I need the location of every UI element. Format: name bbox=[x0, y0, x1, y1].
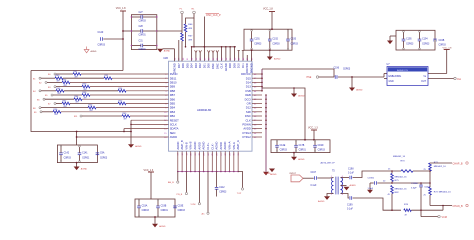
svg-text:VIN-A: VIN-A bbox=[232, 142, 236, 150]
svg-text:C0R03: C0R03 bbox=[219, 191, 227, 193]
capacitor C195 bbox=[402, 38, 406, 40]
svg-text:DB9: DB9 bbox=[170, 85, 176, 89]
net connector VCM output bbox=[421, 216, 438, 218]
svg-text:C0R03: C0R03 bbox=[318, 149, 326, 151]
svg-text:GND: GND bbox=[389, 81, 394, 83]
wire R71-R72 column bbox=[429, 171, 431, 187]
cap stack loop wires bbox=[131, 15, 156, 50]
svg-text:VCC_1.8: VCC_1.8 bbox=[116, 7, 126, 10]
svg-text:HSE: HSE bbox=[307, 77, 312, 79]
svg-text:CTRL2: CTRL2 bbox=[242, 135, 251, 139]
svg-text:D10: D10 bbox=[237, 63, 241, 69]
ground for serial pins bbox=[128, 144, 134, 148]
svg-text:AGND: AGND bbox=[159, 225, 166, 228]
wire U7 Vs to VCC rail bbox=[428, 73, 447, 75]
svg-text:C0R01: C0R01 bbox=[299, 149, 307, 151]
net connector Osc output bbox=[454, 77, 456, 79]
svg-text:DB8: DB8 bbox=[170, 89, 176, 93]
resistor R66 vertical bbox=[184, 24, 187, 32]
port INPUT bbox=[291, 175, 303, 182]
wire R71 to CHAP_B bbox=[430, 162, 452, 164]
svg-text:OEB: OEB bbox=[245, 93, 251, 97]
capacitor C9A on right rail bbox=[96, 152, 100, 154]
svg-text:DRVDD: DRVDD bbox=[245, 63, 249, 73]
svg-text:C192: C192 bbox=[272, 39, 278, 41]
wire bottom bus bbox=[178, 171, 238, 173]
svg-text:OSC_CLK_P: OSC_CLK_P bbox=[206, 14, 221, 17]
ground stub near input bbox=[269, 169, 275, 173]
capacitor C191 bbox=[250, 38, 254, 40]
svg-text:D03: D03 bbox=[194, 63, 198, 69]
svg-text:C19D: C19D bbox=[318, 145, 324, 147]
capacitor C27 bbox=[140, 15, 142, 19]
svg-text:C17B: C17B bbox=[299, 145, 305, 147]
svg-text:AGND: AGND bbox=[264, 172, 271, 175]
capacitor C141 bbox=[78, 152, 82, 154]
svg-text:D02: D02 bbox=[198, 63, 202, 69]
svg-text:CSB: CSB bbox=[245, 89, 251, 93]
ground rail lower right pins bbox=[265, 95, 267, 172]
ground on bypass rail bbox=[293, 88, 295, 94]
svg-text:C0R03: C0R03 bbox=[139, 21, 147, 23]
svg-text:0.1uF: 0.1uF bbox=[311, 185, 317, 187]
svg-text:C0R03: C0R03 bbox=[254, 44, 262, 46]
svg-text:VCM: VCM bbox=[442, 216, 447, 219]
capacitor C192 bbox=[268, 38, 272, 40]
net connector PN_B bbox=[185, 172, 187, 193]
resistor R67 vertical bbox=[181, 33, 184, 41]
svg-text:DB2: DB2 bbox=[170, 114, 176, 118]
capacitor C19B on right rail bbox=[433, 38, 437, 40]
svg-text:U1B: U1B bbox=[163, 57, 168, 60]
wire C191 group to chip pin 48 bbox=[251, 50, 253, 61]
svg-text:AMP_B: AMP_B bbox=[180, 140, 184, 149]
ground below VCC_1.3 caps bbox=[154, 217, 156, 224]
wire right rail upper bbox=[261, 69, 263, 91]
svg-text:VIN+B: VIN+B bbox=[189, 141, 193, 149]
capacitor C14E bbox=[275, 144, 279, 146]
wire P1 down bbox=[181, 14, 183, 33]
svg-text:CLK-: CLK- bbox=[210, 143, 214, 149]
svg-text:AGND: AGND bbox=[223, 142, 227, 150]
capacitor C196 series bbox=[319, 76, 335, 78]
capacitor C28 bbox=[140, 29, 142, 33]
svg-text:C0R03: C0R03 bbox=[64, 157, 72, 159]
svg-text:C28: C28 bbox=[139, 26, 144, 28]
svg-text:AGND: AGND bbox=[193, 142, 197, 150]
svg-text:MR0402_16: MR0402_16 bbox=[395, 176, 408, 178]
wire bottom rail to CHAN riser bbox=[411, 209, 443, 211]
resistor R71 vertical bbox=[429, 163, 432, 171]
svg-text:PDWN: PDWN bbox=[242, 123, 250, 127]
svg-text:AVDD: AVDD bbox=[243, 127, 250, 131]
svg-text:C0R03: C0R03 bbox=[343, 68, 351, 70]
svg-text:C0R01: C0R01 bbox=[139, 35, 147, 37]
wire secondary center tap ground bbox=[341, 185, 347, 187]
oscillator U7 body bbox=[387, 67, 428, 86]
wire loop to oscillator area bbox=[262, 69, 334, 77]
svg-text:INPUT: INPUT bbox=[290, 173, 297, 175]
capacitor C19E on right rail bbox=[173, 205, 177, 207]
net connector AN_B bbox=[177, 172, 179, 181]
wire VCC_1.8 vertical rail bbox=[122, 11, 124, 71]
svg-text:D11: D11 bbox=[241, 63, 245, 68]
svg-text:AVDD: AVDD bbox=[170, 135, 177, 139]
svg-text:C0R01: C0R01 bbox=[161, 210, 169, 212]
svg-text:AGND: AGND bbox=[81, 168, 88, 171]
svg-text:AGND: AGND bbox=[350, 184, 357, 187]
svg-text:SCLK: SCLK bbox=[170, 123, 177, 127]
svg-text:AGND: AGND bbox=[298, 158, 305, 161]
svg-text:C141: C141 bbox=[82, 153, 88, 155]
svg-text:AGND: AGND bbox=[356, 89, 363, 92]
svg-text:TOP: TOP bbox=[237, 193, 242, 195]
net connector AC bbox=[207, 172, 209, 213]
wire U7 OUT to connector bbox=[428, 78, 454, 80]
wire into U7 pins bbox=[383, 74, 385, 78]
svg-text:C112: C112 bbox=[219, 187, 225, 189]
wire primary bottom to ground bbox=[327, 194, 334, 197]
ground left of cap group bbox=[390, 35, 396, 37]
svg-text:DB11: DB11 bbox=[170, 76, 177, 80]
svg-text:AVDD: AVDD bbox=[219, 142, 223, 149]
svg-text:C0R03: C0R03 bbox=[100, 157, 108, 159]
wire R66 to rail bbox=[185, 32, 187, 47]
wire cap stack to bias resistors bbox=[157, 30, 182, 32]
svg-text:C19B0: C19B0 bbox=[411, 183, 418, 185]
wire SEN row to bypass caps bbox=[77, 136, 169, 138]
svg-text:C14E: C14E bbox=[280, 145, 286, 147]
cap group C14E/C17B/C19D loop bbox=[271, 140, 330, 153]
connector circle P1 bbox=[181, 11, 184, 14]
svg-text:C0R03: C0R03 bbox=[272, 44, 280, 46]
wire bus rail above chip (net rail) bbox=[192, 46, 236, 48]
svg-text:D05: D05 bbox=[185, 63, 189, 69]
capacitor C199 bbox=[349, 196, 351, 200]
wire R1 down bbox=[186, 14, 195, 24]
capacitor C194 bbox=[418, 38, 422, 40]
svg-text:CTRL3: CTRL3 bbox=[242, 131, 251, 135]
svg-text:C196: C196 bbox=[334, 67, 340, 69]
capacitor C19A bbox=[137, 205, 141, 207]
svg-text:DB7: DB7 bbox=[170, 93, 176, 97]
svg-text:C19B: C19B bbox=[161, 206, 167, 208]
svg-text:AGND: AGND bbox=[298, 95, 305, 98]
svg-text:MR0402_16: MR0402_16 bbox=[434, 166, 447, 168]
svg-text:499: 499 bbox=[124, 118, 127, 120]
transformer T5 core bbox=[335, 177, 337, 195]
svg-text:MR0402_16: MR0402_16 bbox=[439, 191, 452, 193]
wire rail to bypass caps bbox=[262, 88, 305, 140]
cap group C191-C193 loop bbox=[244, 29, 292, 50]
chip right pin stubs bbox=[252, 73, 262, 75]
svg-text:AGND: AGND bbox=[91, 50, 97, 53]
svg-text:AGND: AGND bbox=[274, 58, 281, 61]
ground on oscillator input wire bbox=[351, 77, 353, 88]
svg-text:C27: C27 bbox=[139, 12, 144, 14]
svg-text:AD9640-80: AD9640-80 bbox=[197, 108, 212, 112]
svg-text:D09: D09 bbox=[232, 63, 236, 69]
ground below right rail bbox=[263, 172, 269, 176]
svg-text:DB4: DB4 bbox=[170, 106, 176, 110]
wire tee to cap stack bbox=[123, 30, 132, 32]
svg-text:MR0402_16: MR0402_16 bbox=[393, 156, 406, 158]
cap group C142/C141/C9A loop bbox=[57, 145, 97, 163]
resistor R82 vertical bbox=[391, 186, 394, 194]
svg-text:D13: D13 bbox=[246, 85, 252, 89]
svg-text:D00: D00 bbox=[207, 63, 211, 69]
svg-text:C19A: C19A bbox=[142, 205, 148, 208]
svg-text:CLK: CLK bbox=[245, 118, 251, 122]
capacitor C112 bbox=[216, 172, 218, 188]
svg-text:SDATA: SDATA bbox=[170, 127, 179, 131]
svg-text:C198: C198 bbox=[348, 168, 354, 170]
wire network box outline bbox=[31, 70, 123, 72]
wire pin1 to AGND bbox=[163, 48, 175, 50]
wire mid rail ground bbox=[369, 183, 371, 190]
net connector TOP bbox=[238, 172, 242, 188]
svg-text:C0R03: C0R03 bbox=[422, 44, 430, 46]
capacitor C19B bypass bbox=[156, 205, 160, 207]
ground below cap group bbox=[76, 163, 78, 167]
power symbol VCC_1.8 (above C191 group) bbox=[269, 11, 275, 13]
svg-text:DRGND: DRGND bbox=[173, 63, 177, 73]
svg-text:AMP_A: AMP_A bbox=[236, 140, 240, 149]
svg-text:AGND: AGND bbox=[215, 142, 219, 150]
resistor R75 vertical bbox=[391, 171, 393, 174]
svg-text:C197: C197 bbox=[311, 172, 317, 174]
svg-text:1.5pF: 1.5pF bbox=[368, 188, 374, 190]
wire C196 to U7 bbox=[338, 76, 384, 78]
svg-text:D08: D08 bbox=[228, 63, 232, 69]
svg-text:AGND: AGND bbox=[164, 49, 171, 52]
svg-text:DB5: DB5 bbox=[170, 102, 176, 106]
svg-text:C1900: C1900 bbox=[368, 178, 375, 180]
wire VCC_1.3 down bbox=[150, 172, 152, 199]
svg-text:C0R01: C0R01 bbox=[82, 157, 90, 159]
capacitor C19B0 VCM column bbox=[420, 183, 422, 185]
svg-text:C0R03: C0R03 bbox=[406, 44, 414, 46]
wire C197 to transformer bbox=[317, 177, 330, 179]
ground below C192 bbox=[269, 50, 271, 56]
chip bottom pin stubs bbox=[177, 151, 179, 171]
ground arrow above resistor box bbox=[86, 47, 88, 50]
capacitor C198 bbox=[349, 176, 351, 180]
svg-text:C199: C199 bbox=[347, 205, 353, 207]
svg-text:AC: AC bbox=[202, 213, 205, 216]
svg-text:0.1uF: 0.1uF bbox=[347, 209, 353, 211]
capacitor C19D bbox=[313, 144, 317, 146]
capacitor C197 bbox=[314, 176, 316, 180]
svg-text:AGND: AGND bbox=[135, 145, 142, 148]
svg-text:MR0402_16: MR0402_16 bbox=[395, 188, 408, 190]
svg-text:D04: D04 bbox=[190, 63, 194, 69]
svg-text:DNC: DNC bbox=[215, 63, 219, 69]
svg-text:DRGND: DRGND bbox=[250, 63, 254, 73]
wire secondary top to C198 bbox=[341, 177, 350, 179]
wire secondary bottom to C199 bbox=[341, 194, 350, 199]
wire top rail bbox=[370, 170, 401, 172]
svg-text:CHAP_B: CHAP_B bbox=[453, 163, 463, 166]
svg-text:DCO: DCO bbox=[245, 97, 251, 101]
op chip top pin stubs bbox=[191, 47, 193, 61]
svg-text:PN_B: PN_B bbox=[177, 194, 183, 196]
wire R67 to chip pin bbox=[181, 41, 183, 61]
svg-text:DNC: DNC bbox=[211, 63, 215, 69]
transformer T5 primary winding bbox=[332, 178, 334, 194]
svg-text:C9A: C9A bbox=[100, 152, 105, 155]
svg-text:C193: C193 bbox=[291, 39, 297, 41]
resistor R74 on bottom rail bbox=[404, 209, 412, 212]
svg-text:C0R03: C0R03 bbox=[98, 44, 106, 47]
svg-text:VCC_1.8: VCC_1.8 bbox=[443, 47, 453, 49]
svg-text:D14: D14 bbox=[246, 81, 252, 85]
svg-text:C31: C31 bbox=[139, 41, 144, 43]
wire OSC_CLK_P to chip bbox=[203, 17, 205, 47]
svg-text:OUT: OUT bbox=[421, 81, 426, 83]
svg-text:SMI: SMI bbox=[246, 110, 251, 114]
svg-text:VCM: VCM bbox=[191, 204, 196, 206]
svg-text:D01: D01 bbox=[202, 63, 206, 69]
capacitor C140 bbox=[100, 37, 102, 41]
svg-text:C0R03: C0R03 bbox=[142, 210, 150, 212]
svg-text:D07: D07 bbox=[177, 63, 181, 69]
capacitor C142 bbox=[59, 152, 63, 154]
ground below C17B bbox=[293, 153, 295, 157]
capacitor C1900 on mid rail bbox=[370, 182, 374, 184]
svg-text:ADT4-1WT-1P: ADT4-1WT-1P bbox=[321, 162, 336, 165]
svg-text:C191: C191 bbox=[254, 39, 260, 41]
svg-text:AN_B: AN_B bbox=[168, 181, 174, 184]
svg-text:AVDD: AVDD bbox=[197, 142, 201, 149]
svg-text:CLK: CLK bbox=[220, 63, 224, 69]
net connector VCM_A bbox=[198, 172, 200, 203]
svg-text:VIN+A: VIN+A bbox=[228, 141, 232, 149]
svg-text:C195: C195 bbox=[406, 39, 412, 41]
svg-text:499: 499 bbox=[55, 114, 58, 116]
svg-text:3.3pF: 3.3pF bbox=[411, 188, 417, 190]
svg-text:0.1uF: 0.1uF bbox=[348, 172, 354, 174]
svg-text:AGND: AGND bbox=[202, 142, 206, 150]
svg-text:DB6: DB6 bbox=[170, 97, 176, 101]
svg-text:C0R03: C0R03 bbox=[439, 44, 447, 46]
svg-text:VCC_1.3: VCC_1.3 bbox=[144, 169, 154, 172]
capacitor C17B bbox=[294, 144, 298, 146]
svg-text:VCC_1.3: VCC_1.3 bbox=[308, 127, 318, 130]
svg-text:VIN-B: VIN-B bbox=[184, 142, 188, 150]
svg-text:C0R03: C0R03 bbox=[280, 149, 288, 151]
wires lower left pins to ground rail bbox=[131, 119, 169, 121]
wire mid rail bbox=[377, 182, 430, 184]
svg-text:DB10: DB10 bbox=[170, 81, 177, 85]
connector circle R1 bbox=[193, 11, 196, 14]
svg-text:AGND: AGND bbox=[176, 142, 180, 150]
svg-text:D12: D12 bbox=[246, 106, 252, 110]
wire C198 to output network bbox=[353, 171, 370, 178]
wire C199 to bottom rail bbox=[353, 198, 401, 210]
chip U1 body bbox=[169, 61, 253, 151]
resistor R73 bbox=[401, 170, 413, 173]
svg-text:VCC_1.8: VCC_1.8 bbox=[263, 8, 273, 11]
svg-text:C194: C194 bbox=[422, 39, 428, 41]
svg-text:C0R01: C0R01 bbox=[139, 49, 147, 51]
ground below cap stack bbox=[157, 49, 163, 53]
wire R73 to R71 column bbox=[413, 170, 430, 172]
svg-text:SEN: SEN bbox=[170, 131, 176, 135]
svg-text:ENBL/DSBL: ENBL/DSBL bbox=[389, 76, 402, 78]
svg-text:D06: D06 bbox=[181, 63, 185, 69]
wire row to box bottom bbox=[124, 128, 169, 130]
svg-text:DNC: DNC bbox=[245, 114, 251, 118]
chip pins 1-4 stubs up bbox=[174, 49, 176, 61]
svg-text:C19B: C19B bbox=[439, 40, 445, 42]
svg-text:CHAN_B: CHAN_B bbox=[453, 205, 463, 208]
svg-text:C140: C140 bbox=[98, 31, 104, 34]
wire INPUT to C197 bbox=[303, 177, 314, 179]
svg-text:C19E: C19E bbox=[178, 206, 184, 208]
power symbol VCC_1.8 (top-left) bbox=[120, 10, 126, 12]
svg-text:OR: OR bbox=[247, 102, 251, 106]
svg-text:DB3: DB3 bbox=[170, 110, 176, 114]
svg-text:C0R03: C0R03 bbox=[291, 44, 299, 46]
svg-text:AGND: AGND bbox=[318, 200, 325, 203]
cap group C19A/C19B loop bbox=[135, 199, 175, 217]
svg-text:RESET: RESET bbox=[170, 118, 179, 122]
resistor R72 vertical bbox=[429, 187, 432, 195]
wire R72 to CHAN_B bbox=[430, 206, 443, 211]
svg-text:CLK+: CLK+ bbox=[206, 142, 210, 149]
svg-text:AGND: AGND bbox=[270, 173, 277, 176]
svg-text:D15: D15 bbox=[246, 76, 252, 80]
svg-text:AGND: AGND bbox=[224, 63, 228, 71]
capacitor C193 bbox=[286, 38, 290, 40]
svg-text:C142: C142 bbox=[64, 153, 70, 155]
cap group C195/C194/C19B loop bbox=[396, 30, 435, 50]
svg-text:ABRACON: ABRACON bbox=[397, 69, 408, 72]
capacitor C31 bbox=[140, 44, 142, 48]
svg-text:C0R03: C0R03 bbox=[178, 210, 186, 212]
transformer T5 secondary winding bbox=[341, 178, 343, 194]
